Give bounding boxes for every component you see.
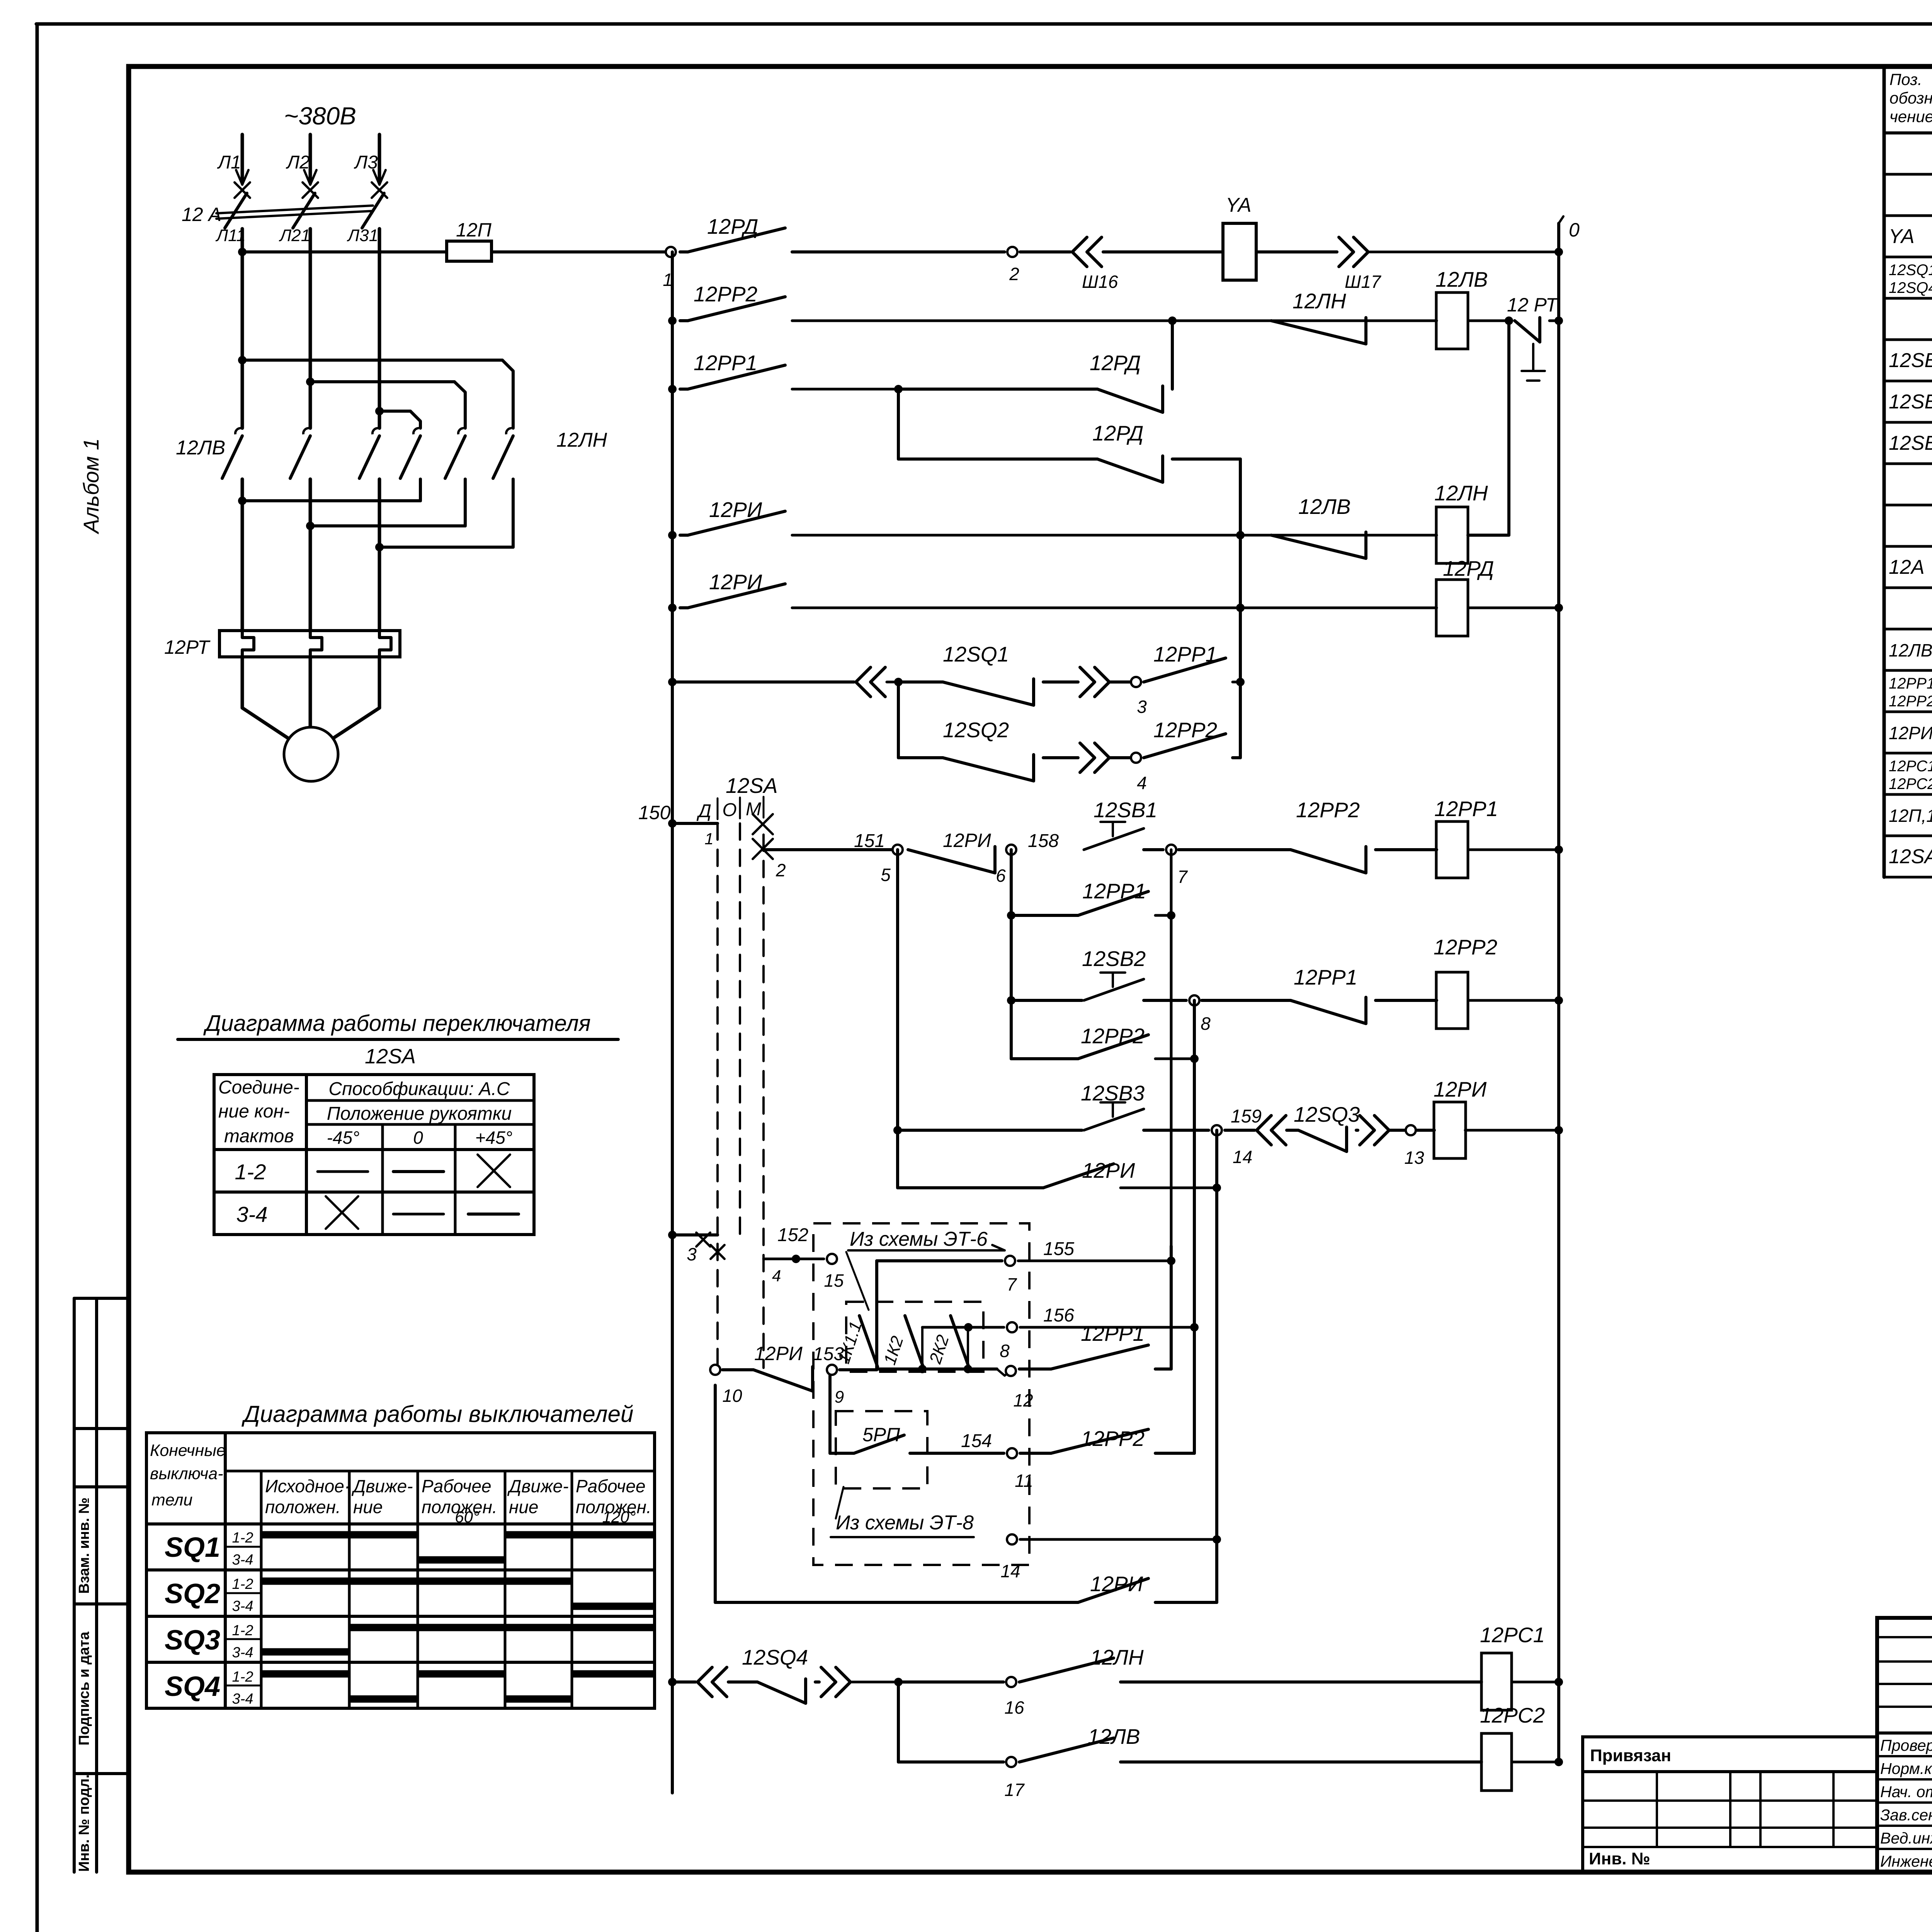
svg-text:14: 14: [1000, 1561, 1020, 1581]
svg-text:Инженер: Инженер: [1880, 1852, 1932, 1870]
svg-text:3: 3: [1137, 697, 1147, 717]
svg-text:Норм.контр.: Норм.контр.: [1880, 1760, 1932, 1777]
svg-text:Нач. отд.: Нач. отд.: [1880, 1783, 1932, 1801]
svg-text:12РС2: 12РС2: [1889, 776, 1932, 793]
svg-text:6: 6: [996, 866, 1006, 886]
svg-text:Л11: Л11: [215, 226, 246, 245]
svg-text:12 А: 12 А: [182, 204, 221, 225]
svg-text:12ЛН: 12ЛН: [556, 429, 607, 451]
svg-text:Из схемы ЭТ-8: Из схемы ЭТ-8: [836, 1512, 974, 1534]
svg-text:7: 7: [1177, 867, 1188, 887]
svg-text:12РР2: 12РР2: [1296, 798, 1360, 822]
svg-text:~380В: ~380В: [284, 102, 356, 130]
svg-text:Привязан: Привязан: [1590, 1746, 1671, 1765]
svg-text:Исходное·: Исходное·: [265, 1476, 350, 1496]
svg-text:ние кон-: ние кон-: [218, 1101, 290, 1122]
svg-text:1: 1: [704, 830, 713, 848]
svg-text:12РИ: 12РИ: [1434, 1077, 1487, 1101]
svg-text:153: 153: [813, 1344, 844, 1364]
svg-text:152: 152: [777, 1225, 808, 1245]
svg-text:4: 4: [772, 1267, 781, 1285]
svg-text:3-4: 3-4: [236, 1202, 268, 1226]
svg-text:Инв. №: Инв. №: [1589, 1849, 1650, 1868]
svg-text:3-4: 3-4: [232, 1645, 253, 1661]
svg-text:12ЛВ: 12ЛВ: [1435, 267, 1488, 291]
svg-text:12SQ1: 12SQ1: [943, 642, 1009, 666]
svg-text:5: 5: [881, 865, 891, 885]
svg-text:10: 10: [722, 1386, 742, 1406]
svg-text:обозна-: обозна-: [1889, 89, 1932, 107]
svg-text:15: 15: [824, 1270, 844, 1291]
svg-text:Л31: Л31: [347, 226, 378, 245]
svg-text:YA: YA: [1226, 194, 1252, 216]
svg-text:12РР1: 12РР1: [1294, 965, 1357, 989]
svg-text:12РД: 12РД: [707, 214, 758, 238]
svg-text:Способфикации: А.С: Способфикации: А.С: [328, 1079, 510, 1099]
svg-text:8: 8: [1000, 1341, 1010, 1361]
svg-text:12ЛВ: 12ЛВ: [1298, 495, 1351, 519]
svg-text:12РР2: 12РР2: [1081, 1427, 1145, 1451]
svg-text:12РИ: 12РИ: [1090, 1572, 1143, 1596]
svg-text:120°: 120°: [602, 1508, 636, 1526]
svg-text:12ЛВ,12ЛН: 12ЛВ,12ЛН: [1889, 640, 1932, 660]
svg-text:Из схемы ЭТ-6: Из схемы ЭТ-6: [850, 1228, 988, 1250]
svg-text:О: О: [722, 800, 736, 820]
svg-text:Взам. инв. №: Взам. инв. №: [76, 1497, 92, 1594]
svg-text:12РТ: 12РТ: [164, 636, 211, 658]
svg-text:12РР1: 12РР1: [694, 351, 757, 375]
svg-text:12РС1: 12РС1: [1480, 1623, 1545, 1647]
svg-text:12SQ1÷: 12SQ1÷: [1889, 262, 1932, 279]
svg-text:17: 17: [1004, 1780, 1025, 1800]
svg-text:2: 2: [1009, 264, 1019, 284]
svg-text:Л3: Л3: [354, 152, 378, 173]
svg-text:7: 7: [1007, 1274, 1017, 1294]
svg-text:12SB2: 12SB2: [1889, 391, 1932, 413]
svg-text:12РС2: 12РС2: [1480, 1703, 1545, 1727]
svg-text:151: 151: [854, 831, 885, 851]
svg-text:12РД: 12РД: [1443, 556, 1494, 580]
svg-text:12РР2: 12РР2: [1081, 1024, 1145, 1048]
svg-text:1-2: 1-2: [232, 1576, 253, 1592]
svg-text:SQ4: SQ4: [165, 1671, 220, 1702]
svg-text:Рабочее: Рабочее: [422, 1476, 492, 1496]
svg-text:Положение рукоятки: Положение рукоятки: [327, 1104, 512, 1124]
svg-text:12SB2: 12SB2: [1082, 947, 1146, 971]
svg-text:12ЛН: 12ЛН: [1090, 1645, 1144, 1669]
svg-text:12ЛН: 12ЛН: [1293, 289, 1346, 313]
svg-text:13: 13: [1404, 1148, 1424, 1168]
svg-text:12РИ: 12РИ: [709, 498, 762, 522]
svg-text:3-4: 3-4: [232, 1691, 253, 1707]
svg-text:12SB3: 12SB3: [1889, 432, 1932, 454]
svg-text:11: 11: [1015, 1471, 1033, 1491]
svg-text:Зав.сект.: Зав.сект.: [1880, 1806, 1932, 1824]
svg-text:12РР1: 12РР1: [1081, 1321, 1145, 1345]
svg-text:положен.: положен.: [265, 1497, 341, 1517]
svg-text:1-2: 1-2: [232, 1669, 253, 1685]
svg-text:12SQ2: 12SQ2: [943, 718, 1009, 742]
svg-text:12SQ3: 12SQ3: [1294, 1102, 1360, 1126]
svg-text:12РР1: 12РР1: [1889, 675, 1932, 692]
svg-text:12РИ: 12РИ: [754, 1343, 803, 1364]
svg-text:12П,12РТ: 12П,12РТ: [1889, 806, 1932, 826]
svg-text:12SA: 12SA: [1889, 845, 1932, 868]
svg-text:12РИ: 12РИ: [709, 570, 762, 594]
svg-text:12SB3: 12SB3: [1081, 1081, 1145, 1105]
svg-text:Поз.: Поз.: [1889, 70, 1922, 88]
svg-text:SQ2: SQ2: [165, 1578, 220, 1609]
svg-text:12РР2: 12РР2: [694, 282, 757, 306]
svg-text:ние: ние: [353, 1497, 383, 1517]
svg-text:Диаграмма работы выключателей: Диаграмма работы выключателей: [241, 1401, 634, 1427]
svg-text:3-4: 3-4: [232, 1598, 253, 1614]
svg-text:0: 0: [413, 1128, 423, 1148]
svg-text:тактов: тактов: [224, 1126, 294, 1146]
svg-text:159: 159: [1231, 1106, 1262, 1127]
svg-text:3: 3: [687, 1244, 697, 1264]
svg-text:12РР1: 12РР1: [1153, 642, 1217, 666]
svg-text:1-2: 1-2: [232, 1622, 253, 1639]
svg-text:12РР2: 12РР2: [1153, 718, 1217, 742]
svg-text:Ш16: Ш16: [1082, 272, 1118, 292]
svg-text:SQ3: SQ3: [165, 1625, 220, 1656]
svg-text:Подпись и дата: Подпись и дата: [76, 1631, 92, 1745]
svg-text:Инв. № подл.: Инв. № подл.: [76, 1774, 92, 1872]
svg-text:12РР1: 12РР1: [1082, 879, 1146, 903]
svg-text:14: 14: [1233, 1147, 1252, 1167]
svg-text:12РР2: 12РР2: [1434, 935, 1497, 959]
svg-text:Ш17: Ш17: [1345, 272, 1381, 292]
svg-text:12А: 12А: [1889, 556, 1925, 578]
svg-text:Диаграмма работы переключате: Диаграмма работы переключателя: [203, 1011, 590, 1036]
svg-text:12РИ: 12РИ: [1082, 1158, 1135, 1182]
svg-text:12РР1: 12РР1: [1434, 797, 1498, 821]
svg-text:12SQ4: 12SQ4: [742, 1645, 808, 1669]
svg-text:9: 9: [835, 1388, 844, 1406]
svg-text:Провер.: Провер.: [1880, 1736, 1932, 1754]
svg-text:155: 155: [1043, 1239, 1074, 1259]
svg-text:-45°: -45°: [327, 1128, 360, 1148]
svg-text:Альбом 1: Альбом 1: [79, 438, 103, 534]
svg-text:154: 154: [961, 1431, 992, 1451]
svg-text:Соедине-: Соедине-: [218, 1077, 299, 1098]
svg-text:12SB1: 12SB1: [1094, 798, 1157, 822]
svg-text:12ЛН: 12ЛН: [1434, 481, 1488, 505]
svg-text:8: 8: [1201, 1014, 1211, 1034]
svg-text:Л2: Л2: [286, 152, 310, 173]
svg-text:12РД: 12РД: [1092, 421, 1143, 445]
svg-text:Рабочее: Рабочее: [576, 1476, 646, 1496]
svg-text:12РИ,12РД: 12РИ,12РД: [1889, 723, 1932, 743]
svg-text:12РД: 12РД: [1090, 351, 1141, 375]
svg-text:156: 156: [1043, 1305, 1074, 1326]
svg-text:SQ1: SQ1: [165, 1532, 220, 1563]
svg-text:Л21: Л21: [279, 226, 310, 245]
svg-text:Вед.инж: Вед.инж: [1880, 1829, 1932, 1847]
svg-text:2: 2: [776, 860, 786, 880]
svg-text:Л1: Л1: [217, 152, 241, 173]
svg-text:12SQ4: 12SQ4: [1889, 279, 1932, 296]
svg-text:тели: тели: [151, 1491, 193, 1509]
svg-text:1-2: 1-2: [235, 1160, 266, 1184]
svg-text:ние: ние: [509, 1497, 538, 1517]
svg-text:12 РТ: 12 РТ: [1507, 294, 1559, 316]
svg-text:1-2: 1-2: [232, 1530, 253, 1546]
svg-text:3-4: 3-4: [232, 1552, 253, 1568]
svg-text:Конечные: Конечные: [150, 1441, 226, 1460]
svg-text:4: 4: [1137, 773, 1147, 793]
svg-text:12РР2: 12РР2: [1889, 693, 1932, 710]
svg-text:12ЛВ: 12ЛВ: [176, 437, 225, 459]
svg-text:+45°: +45°: [475, 1128, 512, 1148]
svg-text:16: 16: [1004, 1697, 1024, 1718]
svg-text:12SB1: 12SB1: [1889, 349, 1932, 372]
svg-text:158: 158: [1028, 831, 1059, 851]
svg-text:150: 150: [638, 802, 671, 823]
svg-text:60°: 60°: [455, 1508, 480, 1526]
svg-text:12: 12: [1013, 1390, 1033, 1410]
svg-text:12П: 12П: [456, 219, 492, 241]
svg-text:Движе-: Движе-: [507, 1476, 569, 1496]
svg-text:12РИ: 12РИ: [943, 830, 991, 851]
svg-text:12SA: 12SA: [726, 774, 778, 798]
svg-text:0: 0: [1569, 219, 1580, 241]
svg-text:YA: YA: [1889, 225, 1915, 248]
svg-text:12ЛВ: 12ЛВ: [1088, 1725, 1140, 1748]
svg-text:выключа-: выключа-: [150, 1464, 223, 1483]
svg-text:Д: Д: [696, 801, 711, 821]
svg-text:Движе-: Движе-: [351, 1476, 413, 1496]
svg-text:чение.: чение.: [1889, 107, 1932, 126]
svg-text:12РС1: 12РС1: [1889, 758, 1932, 775]
svg-text:12SA: 12SA: [365, 1045, 416, 1068]
